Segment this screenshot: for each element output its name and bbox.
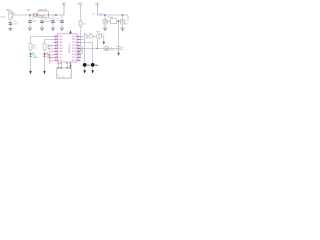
svg-text:11: 11 bbox=[78, 50, 80, 52]
svg-text:4: 4 bbox=[69, 62, 70, 64]
node junction reg out bbox=[118, 20, 119, 21]
svg-text:BLM: BLM bbox=[110, 50, 114, 52]
ground arrow below S1 bbox=[83, 70, 86, 73]
svg-text:13: 13 bbox=[78, 56, 80, 58]
power flag +9V riser bbox=[95, 3, 100, 15]
svg-text:ATmega8: ATmega8 bbox=[67, 43, 70, 54]
svg-text:BT1: BT1 bbox=[6, 9, 11, 12]
svg-text:100n: 100n bbox=[57, 21, 63, 23]
svg-text:18: 18 bbox=[55, 47, 57, 49]
IC left outside net labels bbox=[48, 44, 54, 62]
capacitor C2 bbox=[40, 18, 49, 28]
wire right edge drop bbox=[127, 15, 129, 20]
svg-text:6: 6 bbox=[78, 47, 79, 49]
resistor R1 bbox=[79, 20, 87, 26]
ground for C6 bbox=[103, 28, 107, 31]
svg-text:out: out bbox=[121, 48, 124, 51]
svg-text:RED: RED bbox=[47, 57, 52, 59]
ground arrow below buzzer corner bbox=[103, 42, 105, 45]
svg-text:100n: 100n bbox=[13, 23, 19, 25]
ground arrow below pad P1 bbox=[117, 50, 119, 55]
node junction rail x105 bbox=[104, 14, 106, 16]
svg-text:15: 15 bbox=[55, 38, 57, 40]
ground for C4 bbox=[60, 28, 64, 31]
svg-text:23: 23 bbox=[55, 53, 57, 55]
wire IC right row2 to S1 bbox=[81, 40, 85, 64]
resistor R2 bbox=[84, 33, 88, 38]
svg-text:3: 3 bbox=[78, 38, 79, 40]
wire IC pin row 51.5 down bbox=[50, 52, 58, 65]
LED D1 green bbox=[29, 50, 38, 71]
wire between R2 R3 bbox=[88, 36, 89, 38]
connector J2 pin pads bbox=[58, 67, 71, 69]
IC U1 right pins bbox=[77, 37, 81, 61]
capacitor C5 left bbox=[1, 17, 19, 28]
connector J2 body bbox=[57, 68, 72, 78]
ground for C1 bbox=[28, 28, 32, 31]
svg-text:19: 19 bbox=[55, 50, 57, 52]
button S1 bbox=[83, 63, 91, 70]
fuse F1 bbox=[33, 14, 37, 17]
node junction rail x56 bbox=[55, 14, 57, 16]
IC U1 left pin labels bbox=[58, 36, 63, 62]
arrow below D2 bbox=[43, 71, 46, 75]
capacitor C1 bbox=[28, 15, 37, 28]
ground arrow below S2 bbox=[91, 70, 94, 73]
capacitor C6 bbox=[103, 15, 111, 28]
svg-text:12: 12 bbox=[78, 53, 80, 55]
wire reg output down to pad bbox=[118, 21, 120, 46]
svg-text:1: 1 bbox=[57, 62, 58, 64]
svg-text:GND: GND bbox=[1, 17, 6, 19]
wire IC right row3 to S2 bbox=[81, 43, 93, 64]
regulator U2 78L05 bbox=[105, 17, 123, 24]
ferrite L1 bbox=[104, 47, 114, 52]
power flag +5V bbox=[61, 3, 66, 15]
LED D2 red bbox=[43, 50, 52, 71]
ground for C3 bbox=[51, 28, 55, 31]
wire buzzer corner down bbox=[102, 37, 104, 42]
connector J2 stub labels bbox=[57, 62, 71, 64]
svg-text:4: 4 bbox=[78, 41, 79, 43]
wire IC pin to R5 bbox=[31, 37, 58, 44]
svg-text:3: 3 bbox=[66, 62, 67, 64]
svg-text:78L05: 78L05 bbox=[107, 17, 114, 19]
IC U1 right pin numbers bbox=[78, 35, 80, 61]
button S2 bbox=[91, 63, 99, 70]
connector J2 pin stubs bbox=[58, 64, 70, 68]
ground arrow below IC GND pin bbox=[69, 62, 71, 68]
wire main rail left bbox=[12, 14, 64, 16]
IC U1 left pins bbox=[54, 37, 58, 61]
wire IC right row1 to chain bbox=[81, 36, 85, 38]
node junction rail x30 bbox=[29, 14, 31, 16]
svg-text:2: 2 bbox=[78, 35, 79, 37]
crystal Y1 box bbox=[79, 47, 83, 53]
ground for C2 bbox=[40, 28, 44, 31]
svg-text:28: 28 bbox=[78, 59, 80, 61]
capacitor C3 bbox=[49, 15, 55, 28]
svg-text:25: 25 bbox=[55, 59, 57, 61]
ground for C7 bbox=[120, 28, 124, 31]
buzzer SP1 bbox=[96, 32, 101, 39]
resistor R6 bbox=[43, 44, 51, 50]
svg-text:16: 16 bbox=[55, 41, 57, 43]
wire R1 down bbox=[80, 27, 82, 47]
switch box SW1 bbox=[38, 10, 49, 18]
svg-text:17: 17 bbox=[55, 44, 57, 46]
pad P1 circle bbox=[116, 46, 124, 51]
arrow below D1 bbox=[29, 71, 32, 75]
svg-text:2: 2 bbox=[60, 62, 61, 64]
wire main rail right bbox=[98, 14, 129, 16]
IC U1 right pin labels bbox=[72, 36, 77, 62]
wire IC right row5 to ICSP bbox=[81, 48, 117, 50]
node junction rail x122 bbox=[122, 14, 124, 16]
op IC U1 body bbox=[58, 34, 78, 62]
power flag VCC x80 bbox=[78, 3, 83, 21]
node junction buzzer TP row bbox=[97, 48, 98, 49]
capacitor C4 bbox=[57, 15, 64, 28]
wire Y1 down bbox=[80, 53, 82, 58]
battery connector BT1 bbox=[6, 9, 16, 19]
svg-text:14: 14 bbox=[55, 35, 57, 37]
capacitor C7 bbox=[121, 15, 130, 28]
IC U1 left pin numbers bbox=[55, 35, 57, 61]
svg-text:SW1 DC: SW1 DC bbox=[38, 10, 47, 12]
wire R3 to buzzer bbox=[92, 36, 96, 38]
wire buzzer bottom to TP row bbox=[96, 39, 98, 49]
wire IC pin to R6 bbox=[45, 40, 58, 44]
svg-text:100n: 100n bbox=[32, 21, 38, 23]
resistor R5 bbox=[29, 44, 37, 50]
ground for C5 bbox=[8, 28, 12, 31]
svg-text:24: 24 bbox=[55, 56, 57, 58]
resistor R3 bbox=[89, 33, 92, 38]
svg-text:GRN: GRN bbox=[33, 57, 38, 59]
svg-text:5: 5 bbox=[78, 44, 79, 46]
power arrow into IC VCC pin bbox=[69, 30, 71, 34]
